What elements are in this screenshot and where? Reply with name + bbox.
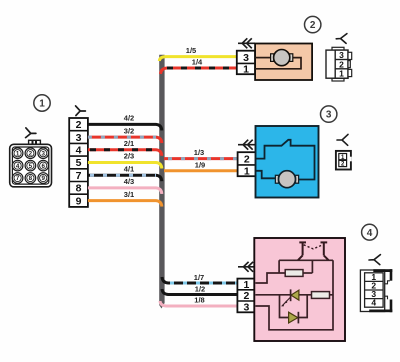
wire 1/5 xyxy=(159,46,237,61)
svg-text:3: 3 xyxy=(243,52,249,64)
wire 2/1 xyxy=(88,139,162,156)
connector mate of 2: arrow xyxy=(336,34,347,44)
svg-text:1/9: 1/9 xyxy=(195,160,205,169)
connector X1 9-pin housing xyxy=(10,140,52,187)
X1 pins 1-9 xyxy=(12,148,48,183)
component 2 chevron xyxy=(238,38,255,48)
wire 4/1 xyxy=(88,164,162,181)
svg-text:2/1: 2/1 xyxy=(124,139,134,148)
svg-text:1: 1 xyxy=(243,279,249,291)
svg-text:7: 7 xyxy=(16,175,20,182)
motor M3 internal wiring + thermal breaker xyxy=(256,140,315,180)
wire 4/2 xyxy=(88,114,162,131)
connector mate of 4 housing xyxy=(360,270,390,312)
motor M3 xyxy=(275,171,298,188)
wire 2/3 xyxy=(88,152,162,169)
svg-text:2: 2 xyxy=(310,20,316,31)
component 4 connector cells xyxy=(237,279,255,314)
svg-text:1: 1 xyxy=(39,99,45,110)
svg-text:4: 4 xyxy=(76,145,82,157)
svg-text:8: 8 xyxy=(76,183,82,195)
lighter element posts xyxy=(298,242,329,260)
wire 3/2 xyxy=(88,126,162,143)
motor M2 internal wiring xyxy=(255,58,301,69)
svg-text:1/8: 1/8 xyxy=(194,296,204,305)
svg-text:5: 5 xyxy=(76,157,82,169)
svg-text:1: 1 xyxy=(244,165,250,177)
svg-text:4/2: 4/2 xyxy=(124,114,134,123)
component 2 connector cells xyxy=(237,51,255,76)
wire 1/3 xyxy=(164,148,238,159)
svg-text:1: 1 xyxy=(339,69,344,79)
svg-text:2: 2 xyxy=(76,119,82,131)
svg-text:8: 8 xyxy=(29,175,33,182)
svg-text:3/2: 3/2 xyxy=(124,126,134,135)
connector mate of 2 housing xyxy=(326,47,352,81)
svg-text:4: 4 xyxy=(371,298,376,308)
svg-text:3/1: 3/1 xyxy=(124,190,134,199)
lighter unit 4 box xyxy=(254,238,345,341)
wire 1/7 xyxy=(162,273,237,283)
connector X1 strip arrow xyxy=(76,106,86,116)
svg-text:3: 3 xyxy=(243,301,249,313)
motor M2 xyxy=(271,50,293,66)
connector mate of 3 housing xyxy=(336,151,352,170)
svg-text:1/4: 1/4 xyxy=(192,58,203,67)
svg-text:3: 3 xyxy=(41,150,45,157)
svg-text:1/5: 1/5 xyxy=(186,46,196,55)
node label 2 xyxy=(305,16,321,32)
wire 1/2 xyxy=(162,285,237,295)
wire 3/1 xyxy=(88,190,162,207)
motor M3 box xyxy=(256,126,319,198)
node label 4 xyxy=(362,224,378,240)
node label 1 xyxy=(34,95,50,111)
resistor R2 xyxy=(312,292,330,299)
svg-text:1/3: 1/3 xyxy=(194,148,204,157)
svg-text:2: 2 xyxy=(243,290,249,302)
svg-text:4/1: 4/1 xyxy=(124,164,134,173)
svg-text:4: 4 xyxy=(367,228,373,239)
svg-text:2: 2 xyxy=(29,150,33,157)
svg-text:1/7: 1/7 xyxy=(194,273,204,282)
svg-text:4/3: 4/3 xyxy=(124,177,134,186)
connector X1 arrow xyxy=(26,128,36,138)
svg-text:4: 4 xyxy=(16,163,20,170)
wire 1/4 xyxy=(161,58,237,75)
svg-text:9: 9 xyxy=(41,175,45,182)
svg-text:2: 2 xyxy=(244,154,250,166)
component 3 chevron xyxy=(238,140,256,150)
svg-text:6: 6 xyxy=(41,163,45,170)
node label 3 xyxy=(321,106,337,122)
connector mate of 4: arrow xyxy=(369,255,380,265)
svg-text:1: 1 xyxy=(16,150,20,157)
svg-text:1: 1 xyxy=(243,64,249,76)
svg-text:3: 3 xyxy=(326,110,332,121)
svg-text:1/2: 1/2 xyxy=(195,285,205,294)
svg-text:3: 3 xyxy=(76,132,82,144)
component 4 chevron xyxy=(238,262,254,272)
motor M2 box xyxy=(255,44,312,81)
diode D2 xyxy=(289,312,299,324)
svg-text:9: 9 xyxy=(76,195,82,207)
component 3 connector cells xyxy=(238,152,256,177)
wire 4/3 xyxy=(88,177,162,194)
svg-text:7: 7 xyxy=(76,170,82,182)
svg-text:2/3: 2/3 xyxy=(124,152,134,161)
resistor R1 xyxy=(285,270,303,277)
lighter unit internal wiring xyxy=(255,260,333,330)
connector X1 pin strip xyxy=(69,118,88,207)
harness trunk xyxy=(159,55,164,309)
wire 1/8 xyxy=(160,296,237,306)
LED D1 xyxy=(281,289,299,306)
svg-text:5: 5 xyxy=(29,163,33,170)
connector mate of 3: arrow xyxy=(337,134,348,145)
wire 1/9 xyxy=(164,160,238,171)
